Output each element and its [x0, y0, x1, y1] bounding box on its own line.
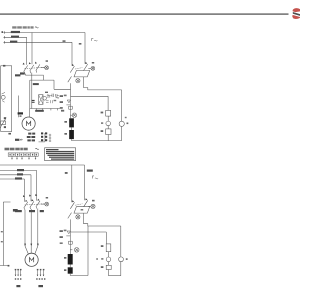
relay coil diagonals: [39, 95, 43, 105]
capacitor marks: [50, 94, 58, 97]
left panel top tick label: [3, 65, 5, 67]
L1 start tick: [3, 31, 5, 34]
bus C: [0, 178, 24, 180]
label bn on drop: [65, 172, 68, 174]
L2 start tick: [3, 36, 5, 39]
label below contact1: [20, 72, 25, 74]
motor feed wire B: [29, 109, 31, 118]
buzzer lamp bottom: [76, 215, 80, 219]
relay circle: [43, 97, 47, 101]
switch S3 contact 3: [36, 201, 40, 207]
feed U arrowhead: [24, 244, 26, 247]
switch S1 contact 3: [36, 64, 40, 70]
S1 contact1 arrowhead: [23, 63, 25, 65]
S2 left arrowhead: [72, 64, 74, 66]
S3 contact3 arrowheads: [35, 194, 40, 201]
bottom bus left segment: [70, 275, 88, 277]
bus line L2: [4, 36, 27, 38]
label brown left of S3: [13, 209, 18, 212]
tiny label near motor top: [20, 115, 22, 116]
interference box bottom: [106, 244, 111, 252]
timer parallelogram: [74, 71, 90, 77]
wire drop L2 to S1 contact1: [26, 37, 28, 65]
L2 wire label blue: [11, 36, 19, 38]
wire to lamp E27: [41, 203, 45, 205]
wire contact1 down: [24, 74, 26, 76]
label E7: [46, 60, 48, 62]
right column upper bottom: [120, 226, 122, 257]
bus B drop: [30, 175, 32, 201]
S2 dashed link: [75, 68, 82, 69]
lamp on rail: [71, 114, 73, 116]
row3 marks: [41, 139, 43, 141]
box2 to bottom: [107, 135, 109, 141]
R2 to bottom bus: [71, 139, 73, 141]
label e1b near S2 drop: [79, 43, 82, 45]
L3 start tick: [3, 41, 5, 44]
pressure switch circle in left panel: [1, 95, 5, 99]
label e5 bottom: [101, 245, 104, 247]
label e5: [101, 112, 104, 114]
below-motor row2 label brown: [27, 136, 31, 138]
feed V into motor: [30, 246, 32, 253]
label 3M~ with arrow: [15, 139, 19, 141]
control box outline: [30, 80, 71, 108]
heater R3: [68, 254, 73, 265]
notes text lines: [46, 149, 59, 150]
label H4: [92, 200, 95, 202]
drop to S4 left pole: [71, 165, 73, 202]
corner down to S4 right pole: [84, 165, 86, 200]
switch S3 contact 1: [24, 202, 28, 208]
box bottom bus: [30, 108, 63, 110]
AC tilde bottom block: [35, 148, 38, 149]
left panel ticks: [1, 231, 3, 232]
bus line L1: [4, 32, 86, 34]
S1 contact2 arrowhead: [29, 62, 31, 64]
row1 marks: [41, 132, 43, 134]
notes box: [45, 148, 76, 161]
cluster wires down-left: [70, 83, 72, 96]
S1 coupling dashed link: [25, 67, 44, 68]
wire S4 to lamp: [88, 205, 91, 207]
AC source mark near x93: [92, 38, 98, 41]
label C06: [38, 285, 43, 287]
buzzer lamp: [76, 79, 80, 83]
left panel box bottom block: [0, 202, 11, 266]
label H2: [92, 62, 94, 64]
right circle drop: [121, 126, 123, 140]
pin group 1: [15, 269, 22, 280]
label above right circle: [125, 117, 127, 118]
bus C label: [15, 177, 22, 179]
label left of R1: [64, 121, 67, 123]
label e1 near L3: [63, 40, 66, 42]
switch S2 contact right: [84, 64, 88, 71]
heater R1: [69, 118, 74, 127]
bracket right of rows: [39, 133, 45, 142]
label e30: [33, 83, 39, 85]
mains label bottom block: [5, 148, 28, 151]
link R3-R4: [69, 265, 71, 268]
feed W slant into motor: [35, 246, 38, 254]
thermostat element: [1, 121, 6, 124]
mid box2: [106, 129, 111, 135]
motor feed wire A: [18, 96, 20, 118]
label left of R2: [64, 133, 67, 135]
aux contact diagonal: [68, 76, 72, 82]
lamp H2: [91, 66, 95, 70]
S1 contact3 arrowhead: [35, 62, 37, 64]
contact marks right of relay: [47, 94, 50, 97]
switch S1 contact 1: [24, 65, 28, 71]
right circle drop bottom: [120, 262, 122, 276]
label left of R4: [64, 269, 66, 271]
switch S3 contact 2: [30, 201, 34, 207]
lamp H4: [91, 204, 95, 208]
heater R2: [69, 130, 74, 139]
motor M2: [25, 253, 38, 266]
vertical x88 down: [87, 226, 89, 276]
L1 wire label brown: [11, 31, 20, 33]
tick near panel bottom: [8, 265, 10, 267]
mid column drop bottom: [105, 232, 107, 244]
circle to box2 bottom: [108, 262, 110, 266]
label left box2 bottom: [101, 266, 104, 268]
S4 dashed link: [75, 204, 82, 205]
label C05: [16, 285, 20, 287]
lamp E27: [45, 202, 49, 206]
box to circle bottom: [108, 252, 110, 257]
label left of R3: [64, 257, 66, 259]
label 230V small left: [15, 74, 20, 76]
label col left of rail bottom: [60, 230, 63, 232]
box to circle: [107, 116, 109, 121]
pin group 2: [36, 269, 45, 280]
switch S4 contact left: [70, 202, 74, 209]
motor feed W: [37, 209, 39, 247]
bus A: [0, 170, 37, 172]
wire contact2 down into box: [31, 73, 33, 109]
AC source mark bottom: [92, 176, 98, 179]
label brown right of corner: [87, 170, 93, 172]
R4 to bottom bus: [69, 274, 71, 276]
left panel box: [1, 66, 12, 132]
lamp on rail bottom: [70, 249, 72, 251]
terminal strip X1: [8, 153, 38, 156]
switch S4 contact right: [84, 200, 88, 207]
small marks right of box bottom: [61, 110, 64, 112]
switch S2 contact left: [70, 66, 74, 73]
S3 contact2 arrowheads: [29, 194, 34, 201]
extra cluster marks: [46, 100, 52, 103]
motor feed V: [30, 209, 32, 246]
feed W arrowhead: [37, 244, 39, 247]
below-motor row1 label yel: [28, 133, 31, 135]
valve marks bottom: [66, 231, 70, 236]
bus A label: [17, 169, 24, 171]
tick below left panel: [8, 133, 11, 135]
small comp on rail bottom: [69, 232, 73, 249]
lamp E7: [45, 66, 49, 70]
thermostat arrow: [0, 118, 6, 128]
heater R4: [68, 267, 73, 273]
label 4 bottom: [126, 258, 128, 260]
L1 tiny left mark: [2, 31, 4, 33]
right circle: [119, 121, 124, 126]
thermostat dots: [4, 117, 6, 119]
box2 to bottom bus: [108, 270, 110, 276]
wire contact3 to lamp E7: [41, 67, 45, 69]
bus B label: [17, 173, 23, 175]
wire drop L3 corner to S2 left pole: [71, 42, 73, 66]
S4 right arrowhead: [85, 198, 87, 200]
label E27: [46, 197, 48, 199]
AC tilde top block: [35, 27, 38, 28]
bus line L3: [4, 41, 73, 43]
circle to box2: [107, 126, 109, 129]
motor feed U: [24, 210, 26, 246]
small mark above bottom timer: [81, 209, 84, 211]
label col left of rail: [60, 95, 63, 97]
right circle bottom: [119, 257, 124, 262]
plus marks bottom: [101, 258, 103, 259]
S3 dashed link: [25, 204, 44, 205]
label left box2: [101, 130, 104, 132]
S3 pin stubs: [25, 207, 37, 210]
link R1-R2: [71, 127, 73, 130]
connector blob on feed A: [18, 112, 23, 114]
staircase right: [84, 77, 122, 90]
staircase right bottom: [84, 213, 121, 226]
S2 right arrowhead: [85, 62, 87, 64]
wire seg y75: [25, 75, 43, 80]
bus B: [0, 174, 31, 176]
pressure switch marks: [2, 92, 5, 102]
plus marks: [101, 122, 103, 123]
bus A drop: [36, 171, 38, 201]
aux contact diagonal bottom: [68, 213, 72, 219]
mid branch y96: [71, 95, 109, 97]
L3 wire label gnye: [10, 41, 17, 43]
wire drop L1 to S1 contact2: [31, 33, 33, 65]
bottom bus of right loop: [72, 140, 122, 142]
logo S (clipped at right edge): [292, 8, 301, 19]
terminal pins below: [11, 156, 36, 160]
terminal digits: [10, 154, 37, 156]
row2 marks: [41, 136, 43, 138]
small marks cluster right: [56, 97, 60, 99]
mid circle bottom: [106, 257, 111, 262]
wire S2 to lamp H2: [88, 67, 91, 69]
motor M1: [22, 117, 35, 130]
mid branch y232: [70, 231, 106, 233]
label brown below c1: [15, 210, 22, 212]
label blue below c3: [40, 210, 44, 212]
relay coil box: [39, 95, 43, 105]
main line under strip: [0, 164, 85, 166]
small comp on rail: [69, 96, 73, 113]
feed U slant into motor: [25, 246, 28, 254]
feed V arrowhead: [30, 244, 32, 247]
wire drop L1 corner to S2 right pole: [84, 33, 86, 64]
right column upper: [121, 90, 123, 121]
rail to heater: [70, 113, 72, 118]
box bottom pin stubs: [36, 109, 57, 111]
bus C drop: [23, 179, 25, 202]
S3 contact1 arrowheads: [23, 195, 28, 202]
below-motor row3 label blue: [27, 139, 30, 141]
switch S1 contact 2: [30, 65, 34, 71]
thermostat arrowhead: [5, 117, 7, 119]
valve symbol marks: [66, 100, 70, 105]
label 4: [127, 123, 129, 125]
second bracket column: [49, 134, 51, 142]
bottom bus right segment: [109, 275, 121, 277]
mains label top block: [12, 26, 33, 28]
interference box: [106, 110, 111, 116]
S4 left arrowhead: [72, 200, 74, 202]
label left of mid circle: [96, 258, 98, 259]
dark connector mark in box: [31, 100, 34, 101]
label M1 under box: [35, 110, 44, 112]
rail to heater R3: [69, 249, 71, 254]
mid column drop: [107, 96, 109, 110]
timer parallelogram bottom: [74, 207, 90, 213]
rail down from cluster: [69, 219, 71, 232]
mid box2 bottom: [106, 265, 111, 269]
S1 pin stubs: [24, 71, 36, 74]
header rule: [0, 13, 289, 14]
label black below c2: [29, 210, 35, 212]
mid circle: [106, 121, 111, 126]
